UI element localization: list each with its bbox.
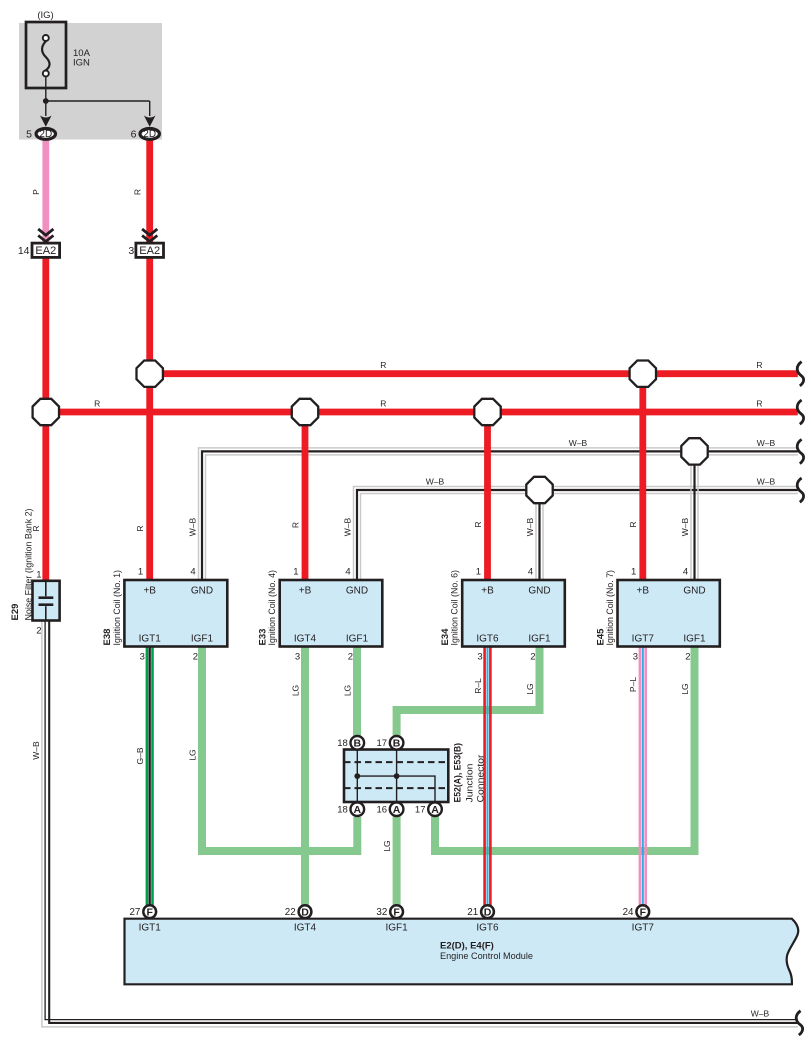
- svg-text:(IG): (IG): [37, 10, 53, 21]
- svg-text:24: 24: [623, 907, 634, 918]
- svg-text:5: 5: [26, 128, 32, 140]
- svg-text:GND: GND: [346, 586, 368, 597]
- svg-text:LG: LG: [382, 840, 392, 851]
- svg-text:R: R: [756, 360, 762, 370]
- svg-text:IGF1: IGF1: [385, 922, 408, 933]
- svg-text:4: 4: [683, 567, 688, 578]
- svg-text:3: 3: [128, 245, 134, 257]
- svg-text:3: 3: [140, 652, 145, 663]
- svg-text:3: 3: [295, 652, 300, 663]
- svg-text:W–B: W–B: [31, 741, 41, 760]
- svg-text:+B: +B: [481, 586, 494, 597]
- svg-text:GND: GND: [191, 586, 213, 597]
- svg-text:27: 27: [129, 907, 140, 918]
- svg-text:LG: LG: [525, 683, 535, 694]
- svg-text:R: R: [94, 398, 100, 408]
- svg-text:EA2: EA2: [35, 245, 56, 257]
- svg-text:Connector: Connector: [476, 755, 487, 803]
- svg-text:F: F: [393, 906, 400, 918]
- svg-text:E52(A), E53(B): E52(A), E53(B): [453, 743, 464, 803]
- svg-text:1: 1: [476, 567, 481, 578]
- svg-text:IGT7: IGT7: [632, 922, 655, 933]
- svg-text:G–B: G–B: [135, 747, 145, 764]
- svg-text:P: P: [31, 189, 41, 195]
- svg-text:4: 4: [190, 567, 195, 578]
- svg-text:16: 16: [377, 805, 388, 816]
- svg-text:R: R: [756, 398, 762, 408]
- svg-text:W–B: W–B: [757, 477, 776, 487]
- svg-text:LG: LG: [680, 683, 690, 694]
- svg-text:Engine Control Module: Engine Control Module: [440, 951, 533, 962]
- svg-text:Ignition Coil (No. 7): Ignition Coil (No. 7): [605, 570, 616, 646]
- svg-text:IGF1: IGF1: [683, 634, 706, 645]
- svg-text:D: D: [301, 906, 309, 918]
- svg-text:W–B: W–B: [751, 1009, 770, 1019]
- svg-text:R: R: [135, 525, 145, 531]
- svg-text:IGT6: IGT6: [476, 634, 499, 645]
- svg-text:A: A: [431, 804, 439, 816]
- svg-text:A: A: [354, 804, 362, 816]
- svg-text:1: 1: [293, 567, 298, 578]
- svg-text:2D: 2D: [39, 129, 52, 140]
- svg-text:E29: E29: [10, 604, 21, 621]
- svg-text:2: 2: [36, 626, 41, 637]
- svg-text:3: 3: [633, 652, 638, 663]
- svg-text:2: 2: [530, 652, 535, 663]
- svg-text:2D: 2D: [143, 129, 156, 140]
- svg-text:4: 4: [345, 567, 350, 578]
- svg-text:LG: LG: [187, 749, 197, 760]
- svg-text:4: 4: [528, 567, 533, 578]
- svg-text:Ignition Coil (No. 6): Ignition Coil (No. 6): [450, 570, 461, 646]
- svg-text:R–L: R–L: [473, 678, 483, 694]
- svg-text:IGT4: IGT4: [294, 634, 317, 645]
- svg-text:1: 1: [631, 567, 636, 578]
- svg-text:W–B: W–B: [569, 438, 588, 448]
- svg-text:D: D: [484, 906, 492, 918]
- svg-text:W–B: W–B: [342, 517, 352, 536]
- svg-text:+B: +B: [299, 586, 312, 597]
- svg-text:1: 1: [36, 570, 41, 581]
- svg-text:18: 18: [337, 738, 348, 749]
- svg-text:14: 14: [18, 245, 30, 257]
- svg-text:2: 2: [685, 652, 690, 663]
- svg-text:IGT7: IGT7: [632, 634, 655, 645]
- svg-text:Ignition Coil (No. 1): Ignition Coil (No. 1): [112, 570, 123, 646]
- svg-text:Ignition Coil (No. 4): Ignition Coil (No. 4): [267, 570, 278, 646]
- svg-text:EA2: EA2: [139, 245, 160, 257]
- svg-text:IGT1: IGT1: [139, 634, 162, 645]
- svg-text:LG: LG: [342, 685, 352, 696]
- svg-text:IGT6: IGT6: [476, 922, 499, 933]
- svg-text:IGF1: IGF1: [191, 634, 214, 645]
- svg-text:+B: +B: [637, 586, 650, 597]
- svg-text:R: R: [290, 522, 300, 528]
- svg-text:2: 2: [193, 652, 198, 663]
- svg-text:Junction: Junction: [465, 764, 476, 803]
- svg-text:GND: GND: [683, 586, 705, 597]
- svg-text:IGT4: IGT4: [294, 922, 317, 933]
- svg-text:18: 18: [337, 805, 348, 816]
- svg-text:W–B: W–B: [426, 477, 445, 487]
- svg-text:1: 1: [138, 567, 143, 578]
- svg-text:17: 17: [377, 738, 388, 749]
- svg-text:R: R: [628, 521, 638, 527]
- svg-text:B: B: [393, 737, 401, 749]
- svg-text:3: 3: [477, 652, 482, 663]
- svg-text:W–B: W–B: [187, 517, 197, 536]
- svg-text:R: R: [380, 398, 386, 408]
- svg-text:LG: LG: [290, 685, 300, 696]
- svg-text:6: 6: [131, 128, 137, 140]
- svg-text:R: R: [380, 360, 386, 370]
- svg-text:IGN: IGN: [73, 58, 90, 69]
- svg-text:B: B: [354, 737, 362, 749]
- svg-text:W–B: W–B: [680, 517, 690, 536]
- svg-text:IGF1: IGF1: [528, 634, 551, 645]
- svg-text:R: R: [31, 525, 41, 531]
- svg-text:F: F: [146, 906, 153, 918]
- svg-text:21: 21: [467, 907, 478, 918]
- svg-text:17: 17: [415, 805, 426, 816]
- svg-text:P–L: P–L: [628, 677, 638, 692]
- svg-text:GND: GND: [528, 586, 550, 597]
- svg-text:W–B: W–B: [525, 517, 535, 536]
- svg-text:+B: +B: [143, 586, 156, 597]
- svg-text:22: 22: [285, 907, 296, 918]
- svg-text:32: 32: [376, 907, 387, 918]
- svg-text:IGF1: IGF1: [346, 634, 369, 645]
- svg-text:Noise Filter (Ignition Bank 2): Noise Filter (Ignition Bank 2): [24, 509, 35, 621]
- svg-text:F: F: [640, 906, 647, 918]
- svg-text:2: 2: [348, 652, 353, 663]
- svg-text:IGT1: IGT1: [139, 922, 162, 933]
- svg-text:A: A: [393, 804, 401, 816]
- svg-text:R: R: [473, 521, 483, 527]
- svg-text:W–B: W–B: [757, 438, 776, 448]
- svg-text:R: R: [133, 189, 143, 195]
